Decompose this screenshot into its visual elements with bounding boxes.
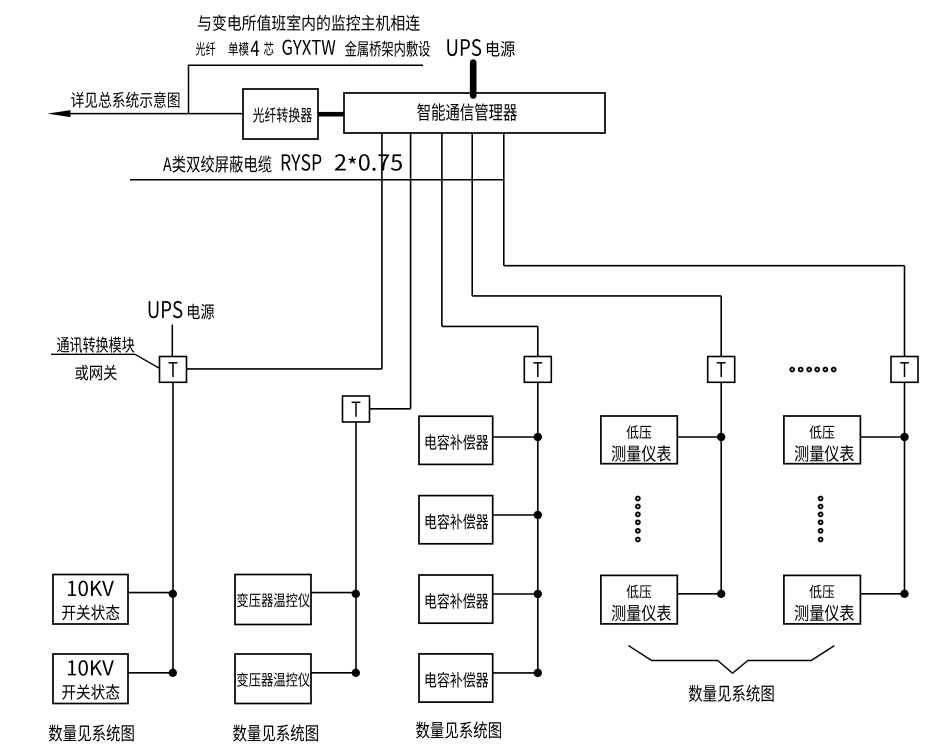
- label: fiber spec 光纤: [196, 42, 215, 56]
- label: 智能通信管理器: [417, 103, 517, 121]
- label: 测量仪表 col4 y575: [612, 605, 671, 622]
- node: T2 bus row3: [352, 590, 360, 598]
- label: RYSP: [282, 154, 322, 171]
- wire: drop 5 horizontal: [504, 265, 905, 267]
- wire: drop 5 vertical to T5: [904, 266, 906, 357]
- node: T1 bus row4: [169, 669, 177, 677]
- label: 10KV (1): [68, 581, 114, 597]
- wire: T3 bus down: [537, 382, 539, 673]
- node: T5 bus y593: [900, 590, 908, 598]
- label: A类双绞屏蔽电缆: [163, 155, 271, 172]
- ellipsis: col4 vertical dots: [636, 497, 640, 542]
- node: T4 bus y437: [717, 433, 725, 441]
- wire: UPS to T1: [171, 325, 173, 357]
- wire: drop 5 from manager: [503, 133, 505, 266]
- label: 详见总系统示意图: [71, 92, 179, 108]
- node: T3 bus row3: [534, 590, 542, 598]
- label: UPS power top: [447, 39, 481, 56]
- label: 电容补偿器 2: [426, 514, 489, 530]
- wire: drop 1 from manager: [381, 133, 383, 369]
- wire: meter col5 to bus y593: [860, 593, 904, 595]
- wire: drop 4 horizontal: [472, 295, 721, 297]
- wire: underline of fiber note: [188, 64, 423, 66]
- node: T4 bus y593: [717, 590, 725, 598]
- wire: drop 2 from manager: [410, 133, 412, 409]
- wire: meter col4 to bus y437: [677, 436, 721, 438]
- wire: vertical from note to arrow line: [188, 65, 190, 113]
- wire: thick UPS feed bar: [470, 63, 477, 96]
- label: 低压 col5 y575: [809, 585, 834, 599]
- wire: cap2 to bus: [493, 514, 538, 516]
- label: fiber spec 单模: [229, 42, 249, 56]
- wire: drop 3 from manager: [441, 133, 443, 326]
- arrow head: to overall system diagram: [48, 110, 71, 117]
- label: *: [348, 156, 356, 163]
- box: 电容补偿器 2: [419, 496, 493, 544]
- wire: T4 bus down: [720, 382, 722, 594]
- wire: temp2 to bus: [311, 672, 356, 674]
- wire: thick link converter to manager: [318, 112, 344, 117]
- label: 低压 col4 y416: [626, 425, 651, 439]
- box: 低压测量仪表 col5 y575: [784, 575, 861, 624]
- converter module T4: [708, 357, 735, 383]
- label: 低压 col4 y575: [626, 585, 651, 599]
- wire: cap4 to bus: [493, 672, 538, 674]
- node: T3 bus row4: [534, 669, 542, 677]
- label: 测量仪表 col5 y416: [795, 445, 854, 462]
- converter module T5: [891, 357, 918, 383]
- label: 开关状态 (2): [62, 684, 119, 700]
- label: cable type GYXTW: [282, 40, 335, 55]
- label: UPS power col1: [149, 301, 183, 318]
- wire: meter col5 to bus y437: [860, 436, 904, 438]
- box: 变压器温控仪 2: [235, 654, 311, 704]
- node: T3 bus row1: [534, 433, 542, 441]
- box: 电容补偿器 3: [419, 575, 493, 623]
- box: 10KV switch status 1: [53, 575, 128, 625]
- wire: arrow line to fiber converter: [52, 113, 243, 115]
- wire: drop 4 from manager: [471, 133, 473, 296]
- wire: drop 4 vertical to T4: [720, 296, 722, 357]
- converter module T2: [343, 396, 370, 422]
- wire: cap1 to bus: [493, 436, 538, 438]
- label: 变压器温控仪 (2): [237, 672, 310, 686]
- wire: cap3 to bus: [493, 593, 538, 595]
- label: 电容补偿器 1: [426, 434, 489, 450]
- leader: underline 通讯转换模块: [51, 353, 135, 355]
- label: 电容补偿器 3: [426, 593, 489, 609]
- label: 电容补偿器 4: [426, 672, 489, 688]
- label: quantity note col3: [416, 721, 501, 738]
- label: quantity note col1: [49, 724, 134, 741]
- wire: T1 bus down: [172, 382, 174, 673]
- label: 或网关: [75, 365, 116, 381]
- ellipsis: col5 vertical dots: [819, 497, 823, 542]
- label: 通讯转换模块: [57, 337, 134, 353]
- label: 光纤转换器: [253, 107, 312, 122]
- wire: temp1 to bus: [311, 592, 356, 594]
- wire: 10KV-1 to bus: [128, 592, 173, 594]
- node: T3 bus row2: [534, 511, 542, 519]
- box: 电容补偿器 1: [419, 416, 493, 464]
- node: T1 bus row3: [169, 590, 177, 598]
- box: 10KV switch status 2: [53, 654, 128, 704]
- converter module T1: [160, 357, 187, 383]
- label: fiber spec 4: [251, 41, 259, 56]
- label: 低压 col5 y416: [809, 425, 834, 439]
- label: 测量仪表 col4 y416: [612, 445, 671, 462]
- box: 低压测量仪表 col4 y575: [601, 575, 677, 624]
- node: T5 bus y437: [900, 433, 908, 441]
- wire: drop 3 vertical to T3: [537, 326, 539, 356]
- wire: T2 bus down: [355, 422, 357, 673]
- label: quantity note col2: [233, 724, 318, 741]
- box: 低压测量仪表 col5 y416: [784, 416, 861, 464]
- label: quantity note col4-5: [689, 685, 774, 702]
- wire: T5 bus down: [904, 382, 906, 594]
- wire: drop 1 horizontal to T1: [187, 368, 382, 370]
- label: UPS power top 电源: [487, 41, 515, 57]
- wire: RYSP cable bus line: [130, 179, 504, 181]
- brace: quantity for columns 4-5: [629, 646, 835, 674]
- label: 开关状态 (1): [62, 605, 119, 621]
- label: fiber spec 芯: [264, 42, 274, 56]
- wire: meter col4 to bus y593: [677, 593, 721, 595]
- box: 光纤转换器 fiber optic converter: [243, 89, 318, 139]
- leader: diagonal to T1: [135, 354, 160, 368]
- label: 10KV (2): [68, 660, 114, 676]
- label: top note line 1: [198, 15, 420, 31]
- ellipsis: horizontal dots between T4 and T5: [790, 368, 835, 372]
- label: 2: [335, 154, 346, 170]
- label: UPS power col1 电源: [188, 304, 214, 320]
- box: 低压测量仪表 col4 y416: [601, 416, 677, 464]
- wire: drop 2 horizontal to T2: [370, 408, 411, 410]
- box: 智能通信管理器 communication manager U1: [344, 93, 605, 133]
- label: 0.75: [359, 154, 402, 171]
- wire: 10KV-2 to bus: [128, 672, 173, 674]
- node: T2 bus row4: [352, 669, 360, 677]
- box: 电容补偿器 4: [419, 654, 493, 702]
- label: 测量仪表 col5 y575: [795, 605, 854, 622]
- wire: drop 3 horizontal: [442, 325, 538, 327]
- label: fiber spec 金属桥架内敷设: [345, 40, 430, 56]
- label: 变压器温控仪 (1): [237, 593, 310, 607]
- box: 变压器温控仪 1: [235, 575, 311, 625]
- converter module T3: [524, 357, 551, 383]
